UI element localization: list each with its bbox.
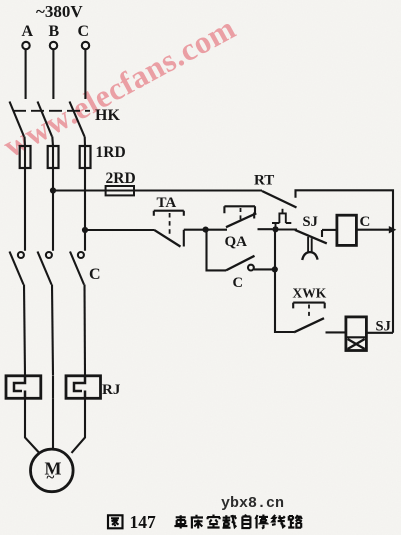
svg-text:C: C — [360, 214, 371, 230]
svg-text:C: C — [89, 266, 101, 283]
svg-text:147: 147 — [130, 512, 157, 532]
svg-text:A: A — [22, 23, 34, 40]
svg-text:XWK: XWK — [293, 286, 327, 301]
svg-text:1RD: 1RD — [96, 144, 126, 161]
svg-text:~380V: ~380V — [36, 2, 83, 21]
svg-text:SJ: SJ — [376, 319, 391, 335]
svg-text:HK: HK — [95, 107, 120, 124]
svg-text:~: ~ — [47, 470, 55, 486]
svg-text:TA: TA — [157, 195, 177, 211]
svg-text:C: C — [233, 275, 243, 291]
svg-text:RJ: RJ — [102, 382, 121, 398]
svg-text:B: B — [49, 23, 60, 40]
svg-text:C: C — [78, 23, 90, 40]
svg-text:QA: QA — [225, 234, 248, 250]
svg-text:2RD: 2RD — [106, 170, 136, 187]
svg-text:SJ: SJ — [303, 214, 318, 230]
svg-text:ybx8.cn: ybx8.cn — [221, 495, 284, 512]
svg-text:RT: RT — [254, 173, 274, 189]
